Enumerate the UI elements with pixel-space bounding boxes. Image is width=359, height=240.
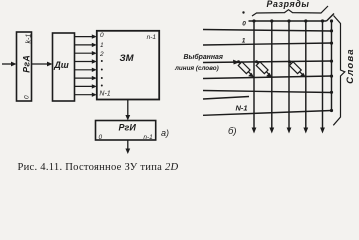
svg-text:ЗМ: ЗМ	[119, 53, 134, 64]
svg-text:Выбранная: Выбранная	[184, 53, 223, 61]
svg-text:N-1: N-1	[99, 91, 110, 98]
svg-text:РгИ: РгИ	[119, 122, 137, 132]
svg-text:б): б)	[228, 126, 237, 137]
svg-text:1: 1	[242, 38, 246, 45]
svg-text:0: 0	[99, 134, 103, 141]
svg-text:n-1: n-1	[143, 134, 153, 141]
svg-text:0: 0	[242, 21, 246, 28]
svg-text:Рис. 4.11. Постоянное ЗУ типа: Рис. 4.11. Постоянное ЗУ типа 2D	[18, 162, 179, 173]
svg-text:1: 1	[100, 42, 104, 49]
svg-text:Разряды: Разряды	[267, 0, 310, 9]
svg-text:а): а)	[161, 128, 169, 138]
svg-text:0: 0	[24, 95, 31, 99]
svg-text:Слова: Слова	[345, 48, 356, 84]
svg-text:n-1: n-1	[147, 34, 157, 41]
svg-text:линия (слово): линия (слово)	[174, 65, 219, 72]
svg-text:Дш: Дш	[53, 60, 69, 70]
svg-text:N-1: N-1	[235, 103, 247, 112]
svg-text:РгА: РгА	[22, 55, 32, 73]
svg-text:2: 2	[99, 51, 104, 58]
svg-text:0: 0	[100, 32, 104, 39]
svg-text:k-1: k-1	[26, 34, 33, 44]
